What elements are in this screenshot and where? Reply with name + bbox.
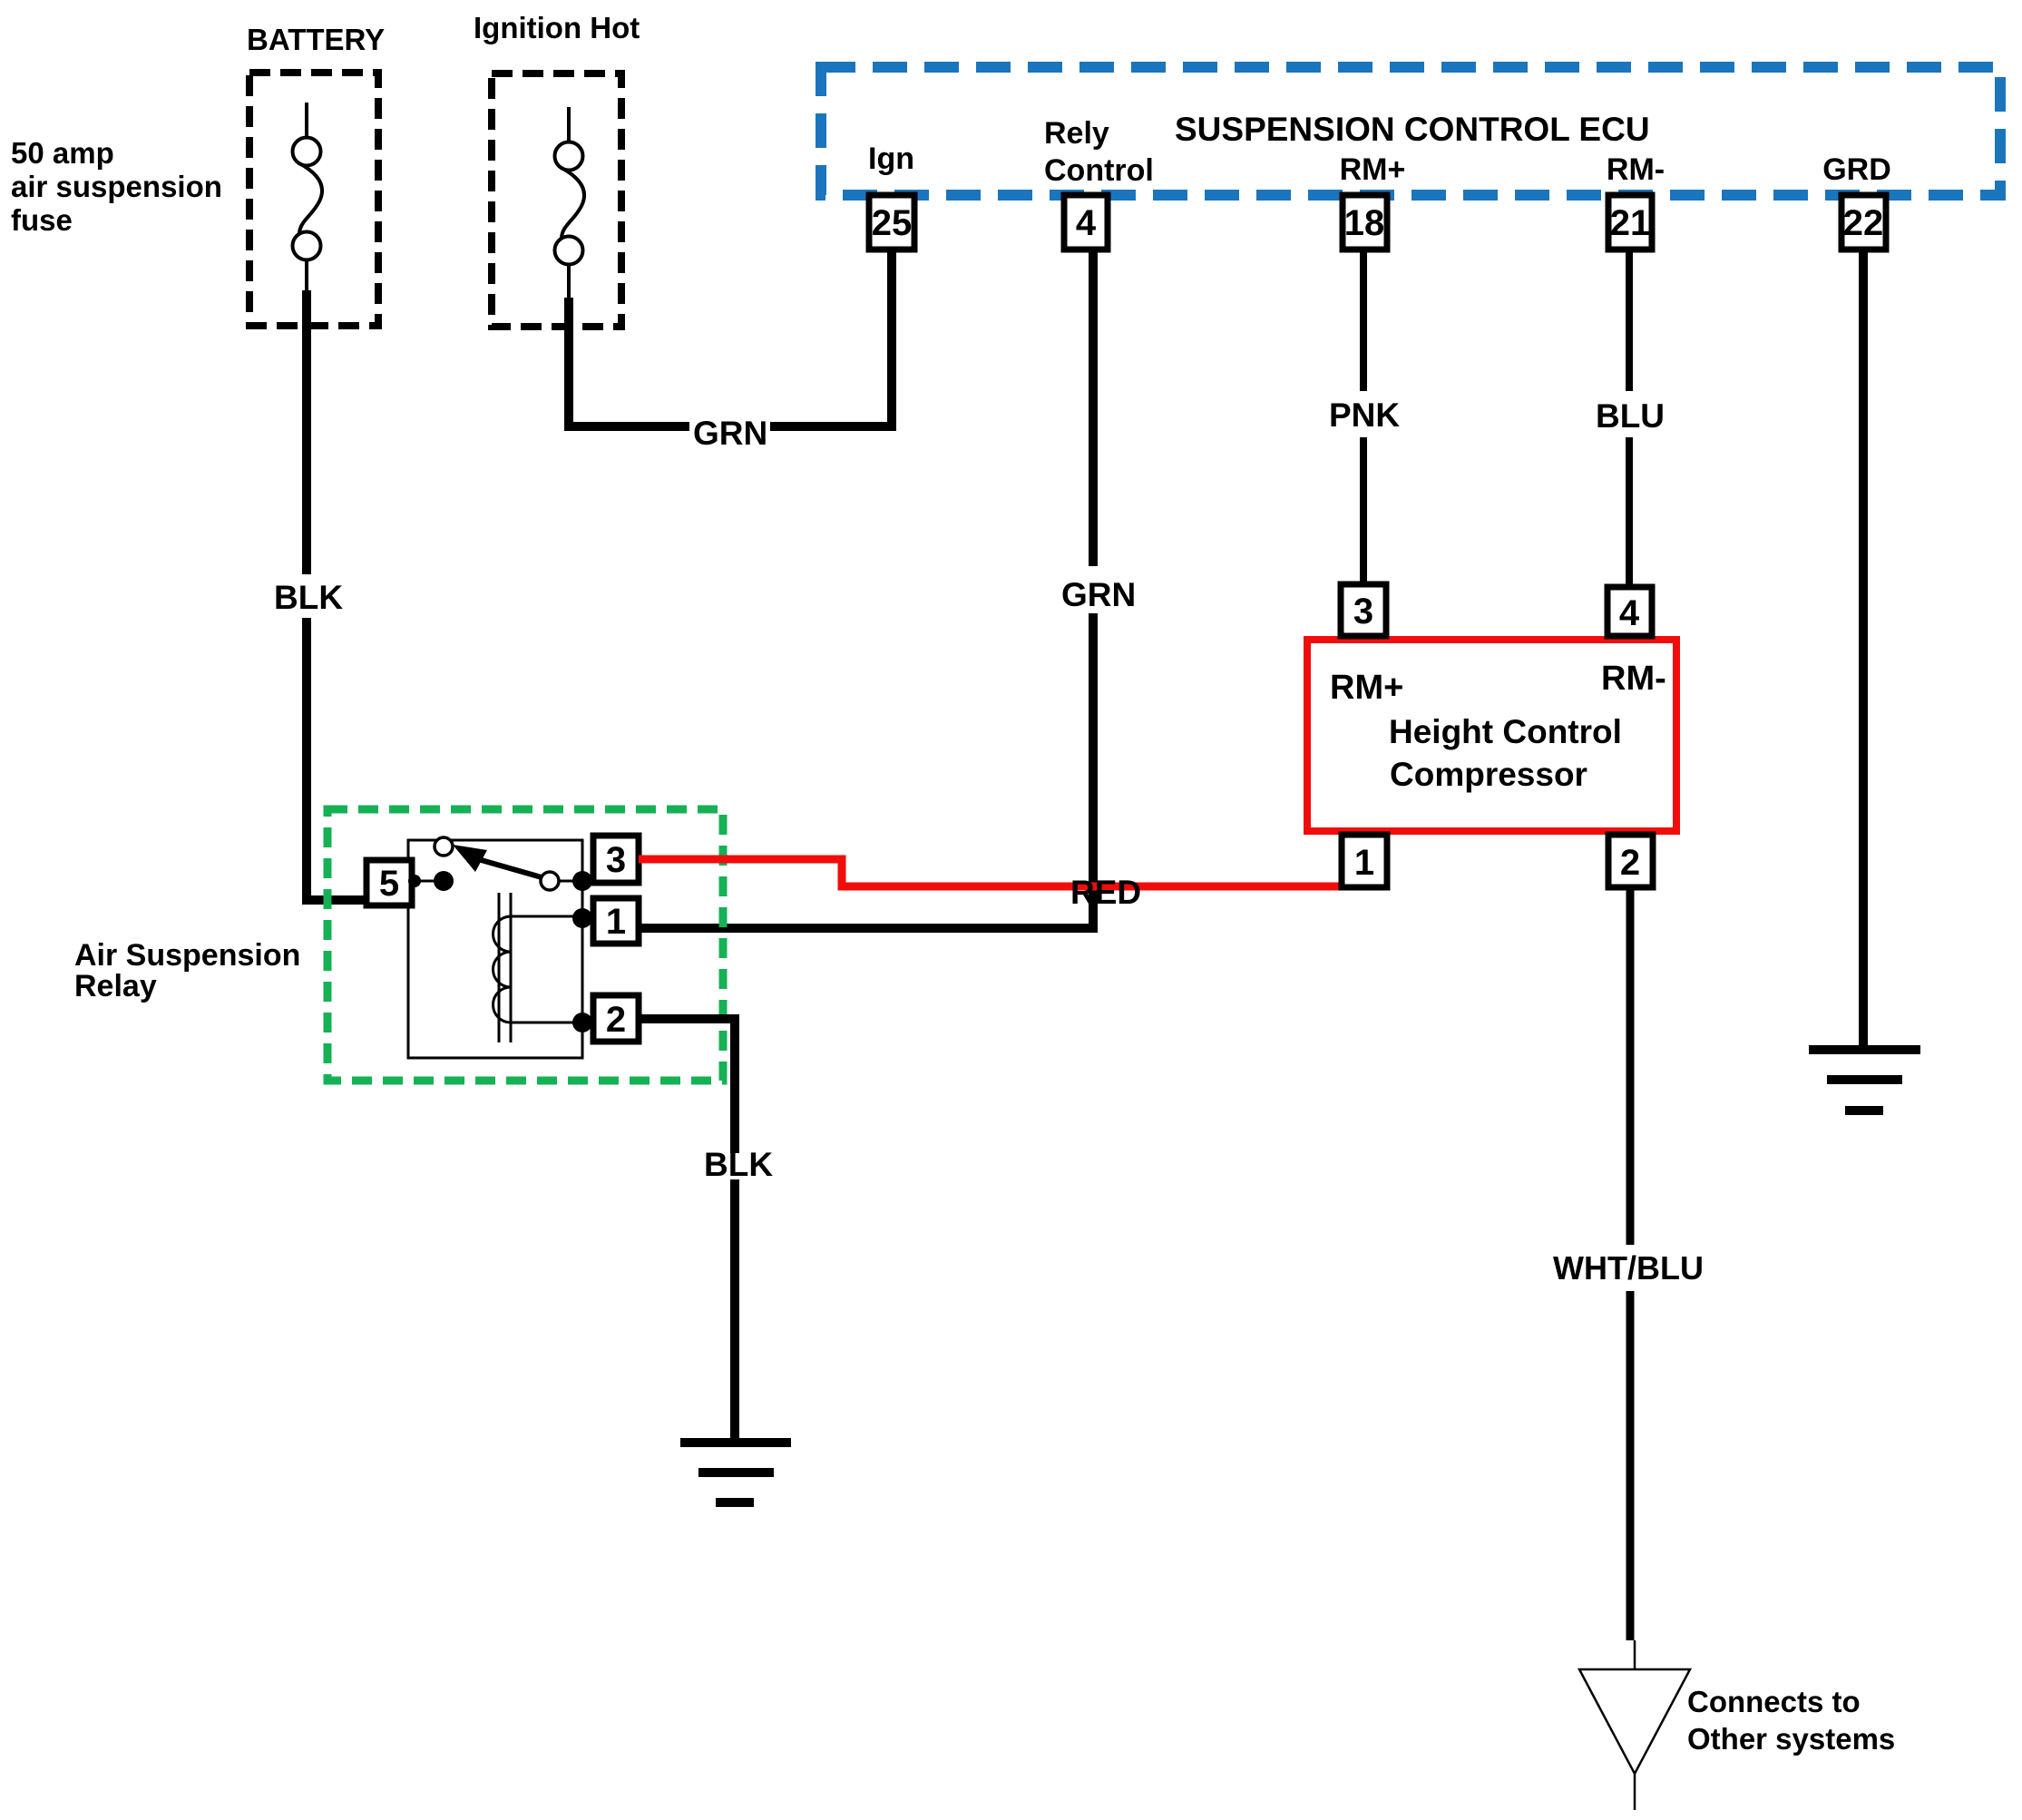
ECU pin 4 — [1064, 195, 1108, 250]
ECU pin 22 — [1841, 195, 1886, 250]
compressor pin 4 — [1607, 587, 1652, 636]
svg-text:RED: RED — [1070, 874, 1141, 911]
svg-text:GRD: GRD — [1822, 152, 1891, 187]
wire WHT/BLU compressor pin 2 to connector — [1626, 887, 1635, 1640]
compressor pin 2 — [1608, 835, 1653, 887]
svg-text:SUSPENSION CONTROL ECU: SUSPENSION CONTROL ECU — [1175, 111, 1650, 148]
svg-text:Ignition Hot: Ignition Hot — [474, 11, 640, 44]
svg-text:50 amp: 50 amp — [11, 136, 114, 170]
relay inner box — [408, 840, 582, 1058]
svg-text:18: 18 — [1344, 203, 1385, 243]
svg-text:4: 4 — [1076, 203, 1097, 243]
ECU pin 25 — [869, 195, 914, 250]
svg-text:PNK: PNK — [1329, 396, 1400, 434]
svg-text:Connects to: Connects to — [1687, 1685, 1861, 1718]
compressor pin 3 — [1341, 584, 1386, 636]
svg-text:BLU: BLU — [1596, 397, 1665, 435]
svg-text:Rely: Rely — [1044, 116, 1109, 151]
relay pin 2 — [593, 995, 639, 1042]
svg-text:Other systems: Other systems — [1687, 1722, 1895, 1756]
fuse F1 (battery) — [293, 103, 323, 292]
svg-text:Air Suspension: Air Suspension — [74, 938, 300, 973]
svg-text:3: 3 — [1353, 592, 1373, 631]
svg-text:Ign: Ign — [868, 142, 914, 176]
svg-text:BLK: BLK — [704, 1146, 773, 1183]
svg-text:fuse: fuse — [11, 203, 73, 237]
relay coil — [493, 893, 593, 1042]
ECU pin 18 — [1343, 195, 1387, 250]
svg-text:RM+: RM+ — [1340, 152, 1406, 187]
ground G2 (GRD) — [1809, 1050, 1920, 1111]
svg-text:21: 21 — [1610, 203, 1651, 243]
relay switch — [408, 837, 592, 891]
battery fuse box — [249, 73, 378, 326]
wire BLK battery to relay pin 5 — [307, 290, 367, 900]
relay pin 3 — [593, 836, 639, 883]
svg-text:GRN: GRN — [693, 415, 767, 452]
svg-text:22: 22 — [1843, 203, 1884, 243]
svg-text:1: 1 — [606, 902, 626, 942]
air suspension relay box — [327, 809, 723, 1081]
ECU pin 21 — [1608, 195, 1652, 250]
svg-text:BLK: BLK — [274, 579, 343, 616]
svg-text:Control: Control — [1044, 153, 1154, 188]
height control compressor box — [1307, 640, 1676, 831]
svg-text:WHT/BLU: WHT/BLU — [1553, 1249, 1704, 1287]
wire BLK relay pin 2 to ground — [639, 1019, 735, 1440]
svg-text:2: 2 — [606, 1000, 626, 1040]
svg-text:RM+: RM+ — [1330, 669, 1403, 707]
wire BLU ECU pin 21 to compressor pin 4 — [1626, 250, 1633, 587]
50 amp air suspension fuse label — [11, 136, 222, 237]
svg-text:BATTERY: BATTERY — [247, 23, 385, 56]
relay pin 1 — [593, 898, 639, 944]
wire GRN ECU pin 4 to relay pin 1 — [639, 250, 1093, 928]
ground G1 (relay) — [680, 1443, 791, 1502]
wire GRD ECU pin 22 to ground — [1859, 250, 1868, 1050]
svg-text:air suspension: air suspension — [11, 170, 222, 203]
fuse F2 (ignition) — [555, 107, 585, 299]
svg-text:GRN: GRN — [1061, 576, 1136, 613]
wire GRN ignition to ECU pin 25 — [569, 250, 892, 426]
svg-text:4: 4 — [1619, 593, 1640, 633]
ignition hot fuse box — [492, 73, 621, 327]
svg-text:Relay: Relay — [74, 969, 157, 1003]
suspension control ECU box — [821, 67, 2000, 195]
svg-text:5: 5 — [379, 864, 399, 904]
svg-text:2: 2 — [1620, 843, 1640, 883]
relay pin 5 — [366, 860, 412, 905]
svg-text:1: 1 — [1354, 843, 1374, 883]
compressor pin 1 — [1342, 835, 1387, 887]
svg-text:25: 25 — [872, 203, 913, 243]
svg-text:RM-: RM- — [1601, 660, 1666, 698]
svg-text:RM-: RM- — [1607, 152, 1665, 187]
svg-text:3: 3 — [606, 840, 626, 880]
svg-text:Height Control: Height Control — [1389, 713, 1622, 750]
connector triangle (connects to other systems) — [1579, 1640, 1690, 1810]
svg-text:Compressor: Compressor — [1390, 756, 1587, 793]
wire PNK ECU pin 18 to compressor pin 3 — [1360, 250, 1367, 584]
wire RED relay pin 3 to compressor pin 1 — [639, 859, 1343, 886]
